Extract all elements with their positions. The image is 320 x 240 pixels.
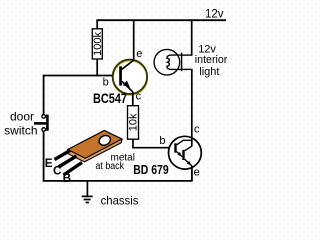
transistor Q2 inner base bar 2 — [182, 150, 184, 160]
door switch S1 — [34, 115, 47, 132]
transistor Q1 emitter line — [122, 60, 134, 69]
transistor Q1 collector line — [122, 81, 133, 92]
transistor Q2 package mounting hole — [97, 134, 112, 147]
wire lamp branch from rail — [191, 20, 193, 56]
transistor Q2 inner emitter arrow 2 — [187, 161, 191, 165]
wire resistor R1 top lead — [96, 20, 98, 29]
transistor Q1 collector arrow — [123, 81, 130, 88]
svg-text:E: E — [45, 157, 53, 170]
lamp LP1 base bar — [181, 53, 183, 72]
svg-text:B: B — [63, 172, 71, 185]
transistor Q2 inner emitter arrow 1 — [177, 152, 181, 156]
wire lamp bottom connection — [182, 68, 193, 70]
transistor Q2 inner emitter line 2 — [185, 159, 192, 166]
svg-text:chassis: chassis — [101, 193, 139, 207]
svg-text:10k: 10k — [128, 113, 140, 131]
resistor R1 body — [92, 29, 102, 59]
svg-text:at back: at back — [96, 161, 125, 172]
transistor Q2 BD679 circle — [169, 136, 202, 169]
svg-text:interior: interior — [195, 54, 228, 66]
lamp LP1 globe — [154, 49, 180, 75]
svg-text:door: door — [10, 109, 34, 123]
transistor Q1 base bar — [119, 66, 122, 85]
resistor R2 body — [128, 106, 139, 140]
wire Q2 emitter lead — [191, 166, 193, 181]
svg-text:C: C — [53, 164, 62, 177]
wire left rail lower — [43, 131, 45, 181]
svg-text:100k: 100k — [92, 31, 104, 55]
chassis ground symbol — [82, 181, 93, 203]
transistor Q2 inner emitter line 1 — [177, 152, 183, 157]
svg-text:12v: 12v — [205, 9, 224, 21]
svg-text:light: light — [199, 66, 219, 78]
lamp LP1 filament — [167, 55, 182, 69]
svg-text:e: e — [194, 167, 200, 179]
wire Q1 collector to R2 — [132, 92, 134, 106]
wire base rail to Q1 — [43, 75, 120, 77]
wire lamp top connection — [182, 54, 193, 56]
transistor Q2 package top face — [68, 131, 122, 159]
wire left rail upper — [43, 75, 45, 115]
transistor Q1 BC547 circle — [113, 61, 147, 95]
transistor Q2 inner collector line 2 — [185, 146, 192, 150]
svg-text:e: e — [136, 48, 142, 60]
wire Q1 emitter lead to rail — [133, 20, 135, 61]
transistor Q2 inner collector line 1 — [177, 140, 192, 145]
svg-text:c: c — [136, 90, 142, 102]
wire resistor R1 bottom lead — [96, 59, 98, 76]
wire 12v top rail — [96, 19, 226, 21]
wire Q2 collector lead — [191, 69, 193, 146]
svg-text:switch: switch — [4, 123, 37, 137]
transistor Q2 package pin E — [55, 151, 71, 160]
transistor Q2 package body side faces — [67, 131, 122, 162]
svg-text:b: b — [103, 77, 109, 89]
transistor Q2 package pin C — [59, 156, 77, 167]
transistor Q2 package pin B — [64, 163, 83, 176]
svg-text:BC547: BC547 — [93, 91, 127, 106]
wire R2 to Q2 base — [133, 139, 175, 148]
svg-text:b: b — [159, 135, 165, 147]
transistor Q2 inner base bar 1 — [174, 143, 176, 152]
svg-text:c: c — [194, 124, 200, 136]
wire 0v bottom rail — [43, 180, 193, 182]
svg-text:BD 679: BD 679 — [133, 162, 169, 177]
